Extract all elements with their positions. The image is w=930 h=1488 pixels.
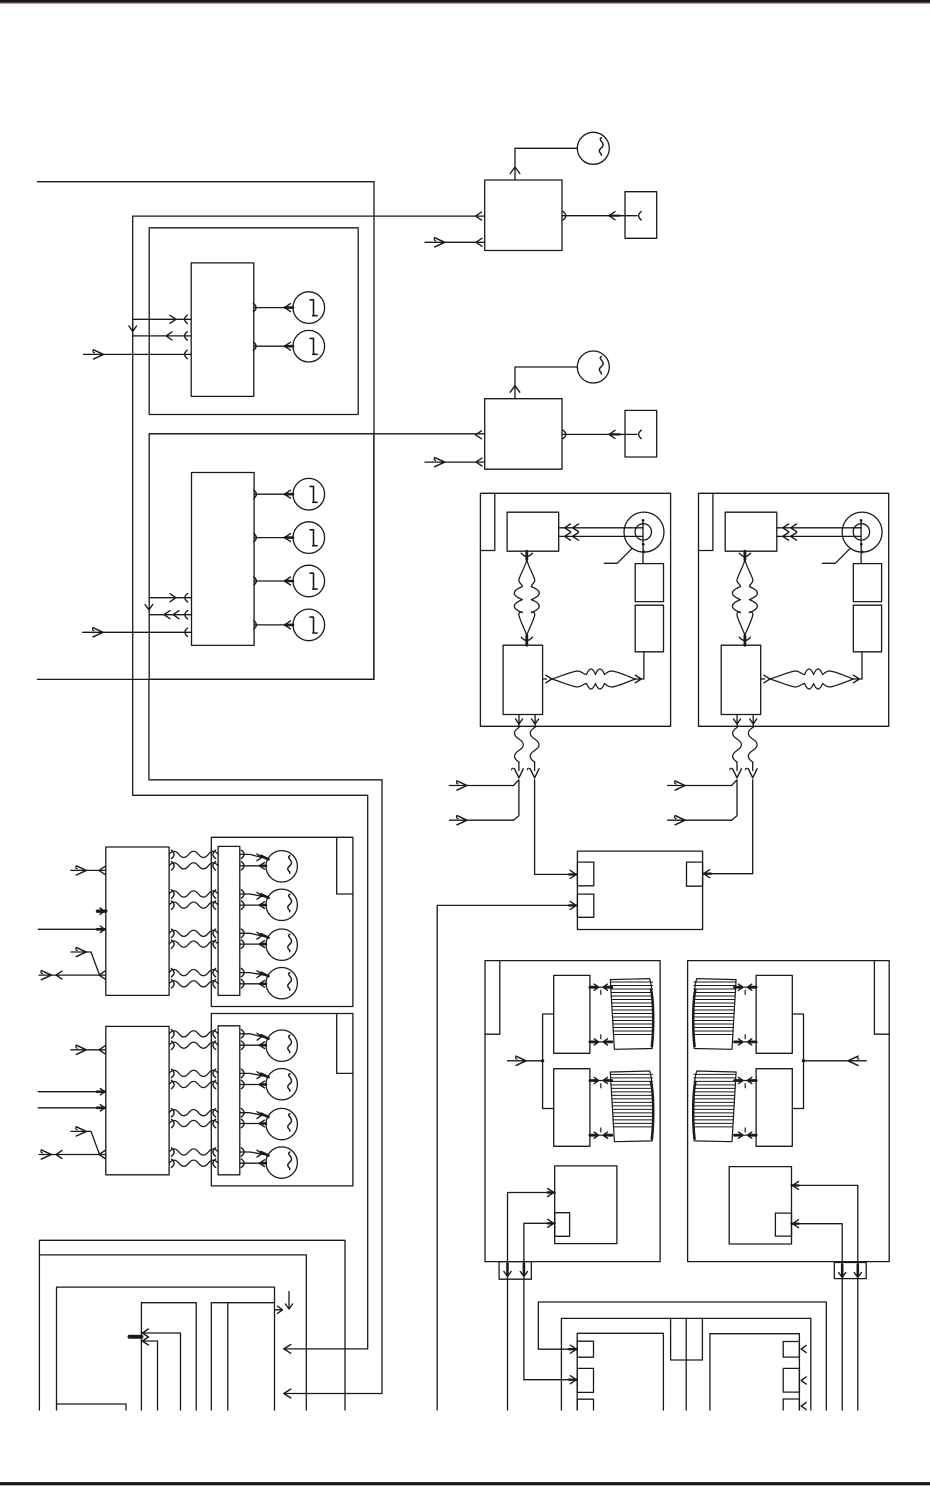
wire into R1 pin1	[133, 318, 192, 320]
junction tab 1	[577, 862, 593, 886]
wire box to motor 1	[777, 527, 861, 529]
harness wire pair	[169, 1110, 218, 1116]
harness input diagonal	[76, 947, 86, 952]
unit tab 3	[577, 1399, 593, 1410]
terminal bar	[130, 1335, 142, 1339]
lamp bulb	[266, 1108, 297, 1139]
lamp bulb	[266, 851, 297, 882]
twisted pair horizontal	[761, 678, 765, 680]
harness wire pair	[169, 1070, 218, 1076]
feed wire A	[450, 785, 514, 787]
wire box to motor 2	[559, 535, 643, 537]
harness wire pair	[169, 851, 218, 857]
lock position switch box	[503, 645, 542, 714]
right unit tab 1	[783, 1342, 799, 1358]
twisted pair horizontal	[543, 678, 547, 680]
harness wire pair	[169, 930, 218, 936]
window control unit	[555, 1166, 617, 1244]
socket to bulb wires	[241, 1030, 244, 1038]
wire infeed	[476, 212, 482, 220]
lamp bulb	[266, 1069, 297, 1100]
lamp bulb	[266, 929, 297, 960]
bottom bus wire 1	[39, 1240, 345, 1410]
panel wire h1	[141, 1333, 180, 1410]
wire R1 to L2	[254, 345, 293, 347]
window motor winding	[610, 1071, 653, 1142]
wire infeed 2	[425, 461, 485, 463]
control wire 1	[508, 1193, 555, 1411]
page bottom rule	[0, 1482, 930, 1485]
center connector wire	[685, 1318, 687, 1410]
feed wire B	[668, 819, 732, 821]
wire bus bottom	[38, 678, 375, 680]
lock motor	[842, 512, 882, 552]
assembly notch	[874, 961, 889, 1035]
harness input 3	[39, 974, 106, 976]
socket to bulb wires	[241, 1109, 244, 1117]
wire into R1 pin3	[84, 353, 192, 355]
lamp controller R2	[192, 473, 255, 646]
lamp L3	[293, 478, 325, 510]
generator	[577, 351, 609, 383]
arrow down on bus	[132, 322, 134, 330]
lamp L2	[293, 330, 325, 362]
inner loop 2	[211, 1303, 274, 1410]
lamp bulb	[266, 1030, 297, 1061]
lamp L4	[293, 522, 325, 554]
arrow into left panel	[284, 1345, 291, 1354]
relay to motor wires	[590, 986, 612, 988]
harness input diagonal	[76, 1127, 86, 1132]
harness input stub	[98, 910, 106, 913]
page top rule	[0, 0, 930, 3]
power window assembly box	[485, 961, 660, 1262]
twisted pair vertical	[744, 551, 747, 559]
wire infeed	[476, 431, 482, 439]
wire box to motor 2	[777, 535, 861, 537]
terminal inside connector	[625, 433, 637, 435]
harness input 2	[38, 928, 106, 930]
middle panel outline	[561, 1318, 810, 1410]
window relay block	[756, 1069, 792, 1147]
arrow up into box	[510, 167, 520, 174]
relay bracket wire	[543, 1014, 554, 1109]
wire B1 feed to relay block	[133, 216, 485, 1349]
harness input 1	[71, 1049, 106, 1051]
wire bus top	[38, 181, 375, 183]
lock switch block 2	[853, 605, 881, 652]
control wire 2	[524, 1223, 555, 1379]
window control unit	[729, 1167, 791, 1244]
unit tab 1	[577, 1341, 593, 1357]
lock switch block 1	[635, 564, 663, 602]
socket to bulb wires	[241, 1148, 244, 1156]
lamp bulb	[266, 889, 297, 920]
relay to motor wires	[735, 1080, 757, 1082]
lamp bulb	[266, 968, 297, 999]
control unit tab	[555, 1213, 570, 1237]
wire into R2 pin3	[83, 631, 192, 633]
lock position switch box	[721, 645, 761, 714]
wire IB2 feed	[149, 679, 382, 1393]
socket to bulb wires	[241, 1069, 244, 1077]
power window assembly box	[688, 961, 890, 1262]
lamp housing box	[211, 837, 353, 1006]
door lock assembly box	[699, 493, 889, 726]
junction relay box	[577, 851, 702, 929]
wire box to motor 1	[559, 527, 643, 529]
wire R2 to lamp	[254, 624, 293, 626]
relay bracket wire	[792, 1014, 803, 1109]
terminal stubs	[736, 715, 738, 728]
arrow up into box	[510, 386, 520, 393]
panel wire h2	[141, 1341, 157, 1410]
wire R2 to lamp	[254, 537, 293, 539]
panel bottom tab	[57, 1404, 127, 1410]
middle left unit	[577, 1333, 663, 1410]
panel drop arrow	[288, 1292, 290, 1308]
motor control box	[485, 180, 562, 251]
window motor winding	[610, 979, 653, 1050]
connector block	[625, 192, 657, 239]
lamp controller R1	[191, 263, 254, 397]
wire box to connector	[562, 215, 625, 217]
lock motor	[624, 512, 664, 552]
lamp L6	[293, 609, 325, 641]
control wire 1	[792, 1185, 858, 1410]
control unit tab	[775, 1213, 791, 1236]
left panel outline	[57, 1287, 275, 1410]
bottom connector	[834, 1263, 866, 1279]
harness connector box	[106, 1026, 169, 1174]
wire junction tab2 feed	[437, 905, 577, 1410]
motor control box	[485, 399, 562, 470]
window motor winding	[693, 1071, 736, 1142]
inner drop wire	[227, 1303, 229, 1410]
lamp L5	[293, 565, 325, 597]
wire to junction	[535, 780, 578, 875]
assembly feed wire	[508, 1060, 543, 1062]
connector notch	[480, 493, 494, 550]
harness input 2b	[38, 1107, 106, 1109]
motor lever	[604, 548, 632, 563]
socket to bulb wires	[241, 890, 244, 898]
right unit tab 3	[783, 1399, 799, 1410]
harness connector box	[106, 847, 169, 995]
wire box to generator	[515, 148, 577, 180]
lock control box	[725, 512, 777, 551]
feed wire B	[450, 819, 514, 821]
harness input 3	[39, 1154, 106, 1156]
harness wire pair	[169, 891, 218, 897]
assembly notch	[485, 961, 500, 1035]
inner loop 1	[141, 1303, 196, 1410]
panel stub arrow	[275, 1309, 282, 1311]
feed wire A	[668, 785, 732, 787]
assembly feed wire	[804, 1060, 867, 1062]
harness wire pair	[169, 1031, 218, 1037]
wire switch to pair	[861, 652, 863, 679]
harness wire pair	[169, 970, 218, 976]
lock control box	[507, 512, 559, 551]
wire to middle panel tab1	[538, 1302, 826, 1410]
lamp housing box	[211, 1014, 353, 1186]
wire into R2 pin1	[149, 597, 192, 599]
wire into R1 pin2	[133, 335, 192, 337]
wire infeed 2	[425, 241, 485, 243]
lock switch block 2	[635, 605, 663, 652]
bottom bus wire 2	[39, 1255, 306, 1410]
harness wave 2	[530, 728, 539, 763]
window motor winding	[693, 979, 736, 1050]
generator	[577, 132, 609, 164]
wire switch to pair	[643, 652, 645, 679]
right unit tab 2	[783, 1368, 799, 1392]
housing notch	[337, 837, 353, 894]
bottom connector	[499, 1262, 531, 1280]
connector block	[625, 410, 657, 457]
wire to junction	[703, 780, 753, 874]
door lock assembly box	[480, 493, 670, 726]
housing notch	[337, 1014, 353, 1074]
harness wire pair	[169, 1149, 218, 1155]
lock switch block 1	[853, 564, 881, 602]
window relay block	[756, 975, 792, 1053]
unit tab 2	[577, 1368, 593, 1392]
lamp L1	[293, 292, 325, 324]
connector notch	[699, 493, 713, 550]
window relay block	[554, 1069, 590, 1147]
socket to bulb wires	[241, 850, 244, 858]
interior lamp unit box IB1	[149, 228, 358, 415]
terminal inside connector	[625, 215, 637, 217]
lamp bulb	[266, 1147, 297, 1178]
harness input 2a	[38, 1091, 106, 1093]
wire R2 to lamp	[254, 493, 293, 495]
middle right unit	[710, 1334, 800, 1410]
twisted pair vertical	[525, 551, 528, 559]
wire bus right	[373, 182, 375, 680]
harness wave 1	[733, 728, 742, 763]
relay to motor wires	[735, 986, 757, 988]
wire R1 to L1	[254, 307, 293, 309]
arrow down on IB2 edge	[145, 605, 153, 611]
arrow into left panel 2	[284, 1389, 291, 1398]
wire IB2 top to rear assembly	[149, 433, 485, 435]
relay to motor wires	[590, 1080, 612, 1082]
window relay block	[554, 975, 590, 1053]
socket to bulb wires	[241, 968, 244, 976]
motor lever	[822, 548, 850, 563]
wire R2 to lamp	[254, 580, 293, 582]
socket to bulb wires	[241, 929, 244, 937]
interior lamp unit box IB2	[149, 434, 374, 680]
terminal stubs	[518, 715, 520, 728]
harness wave 2	[748, 728, 757, 763]
bulb socket strip	[218, 1026, 240, 1175]
wire box to generator	[515, 367, 577, 399]
wire to left panel tab2	[524, 1379, 577, 1381]
wire box to connector	[562, 433, 625, 435]
control wire 2	[792, 1224, 843, 1410]
junction tab 3	[687, 862, 703, 886]
bulb socket strip	[218, 846, 240, 995]
center connector	[671, 1318, 703, 1360]
junction tab 2	[577, 894, 593, 917]
harness wave 1	[515, 728, 524, 763]
wire into R2 pin2	[149, 614, 192, 616]
harness input 1	[71, 869, 106, 871]
